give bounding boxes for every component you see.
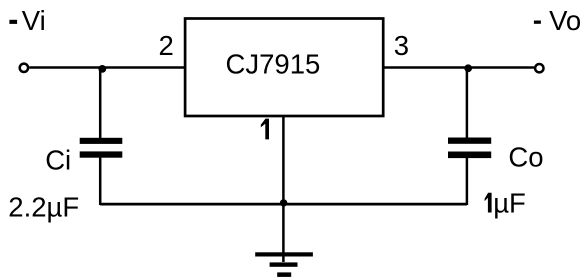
svg-text:Vi: Vi bbox=[22, 5, 46, 36]
svg-text:Ci: Ci bbox=[45, 144, 71, 175]
svg-text:3: 3 bbox=[394, 30, 409, 61]
svg-text:µF: µF bbox=[493, 188, 526, 219]
svg-text:2: 2 bbox=[159, 30, 174, 61]
svg-text:Vo: Vo bbox=[549, 5, 581, 36]
svg-text:CJ7915: CJ7915 bbox=[226, 48, 321, 79]
svg-text:2.2µF: 2.2µF bbox=[8, 191, 79, 222]
svg-text:Co: Co bbox=[508, 141, 543, 172]
